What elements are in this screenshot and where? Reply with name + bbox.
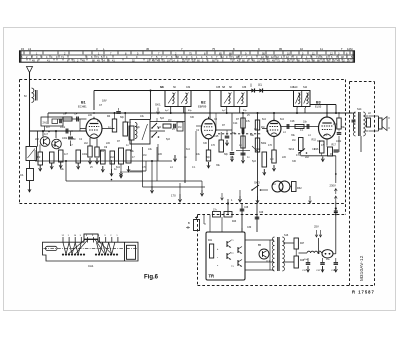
svg-text:100k: 100k <box>60 126 66 129</box>
svg-text:100k: 100k <box>82 153 88 156</box>
svg-text:L3: L3 <box>28 47 32 51</box>
svg-text:EBF89: EBF89 <box>198 104 207 108</box>
svg-text:12M: 12M <box>347 47 353 51</box>
svg-text:ECH81: ECH81 <box>78 104 87 108</box>
svg-text:220: 220 <box>88 114 93 117</box>
svg-text:SK2: SK2 <box>289 147 295 151</box>
svg-text:330: 330 <box>292 160 297 163</box>
svg-text:1M: 1M <box>178 126 181 129</box>
svg-text:X1: X1 <box>258 83 262 87</box>
svg-text:R12: R12 <box>256 148 261 151</box>
svg-text:8n2: 8n2 <box>262 118 267 121</box>
svg-text:8n2: 8n2 <box>186 148 191 151</box>
svg-text:R2: R2 <box>37 155 41 159</box>
svg-text:8n2: 8n2 <box>116 166 121 169</box>
svg-text:11: 11 <box>320 47 323 51</box>
svg-text:4n7: 4n7 <box>64 153 69 156</box>
svg-text:SK3: SK3 <box>254 181 260 185</box>
svg-text:M310AV-12: M310AV-12 <box>359 255 364 281</box>
svg-text:C14: C14 <box>233 122 238 125</box>
svg-text:2k2: 2k2 <box>305 156 310 159</box>
svg-text:S10: S10 <box>303 87 308 89</box>
svg-text:Fig.6: Fig.6 <box>144 275 159 281</box>
svg-text:95: 95 <box>279 47 283 51</box>
svg-text:4n7: 4n7 <box>46 126 51 129</box>
svg-text:330: 330 <box>52 144 57 147</box>
svg-text:2k2: 2k2 <box>110 156 115 159</box>
svg-text:1M: 1M <box>143 154 146 157</box>
svg-text:220: 220 <box>106 142 111 145</box>
svg-text:220: 220 <box>282 156 287 159</box>
svg-text:TR: TR <box>209 274 215 279</box>
svg-text:68p: 68p <box>206 156 211 159</box>
svg-text:C31: C31 <box>160 87 165 89</box>
svg-text:C36: C36 <box>242 87 247 89</box>
svg-text:470: 470 <box>296 154 301 157</box>
svg-text:R32: R32 <box>297 187 302 190</box>
svg-text:18V: 18V <box>102 99 107 103</box>
svg-text:B: B <box>188 221 190 225</box>
svg-text:75: 75 <box>212 47 216 51</box>
svg-text:4n7: 4n7 <box>333 123 338 126</box>
svg-text:68p: 68p <box>224 153 229 156</box>
svg-text:2k2: 2k2 <box>84 142 89 145</box>
svg-text:470: 470 <box>268 144 273 147</box>
svg-text:2A1: 2A1 <box>43 121 48 125</box>
svg-text:100k: 100k <box>336 140 342 143</box>
svg-text:5p6: 5p6 <box>160 117 165 120</box>
svg-text:R41: R41 <box>208 240 213 242</box>
svg-text:T: T <box>341 47 343 51</box>
svg-text:CA1: CA1 <box>88 264 94 268</box>
svg-text:45: 45 <box>146 47 150 51</box>
svg-text:C1: C1 <box>20 173 24 177</box>
svg-text:330: 330 <box>190 116 195 119</box>
svg-text:220: 220 <box>158 153 163 156</box>
svg-text:100k: 100k <box>62 137 68 140</box>
svg-text:C35: C35 <box>216 87 221 89</box>
svg-text:2k2: 2k2 <box>35 138 40 141</box>
svg-text:230V: 230V <box>330 184 336 188</box>
svg-text:C4: C4 <box>74 112 78 116</box>
svg-text:SK1: SK1 <box>155 103 161 107</box>
svg-text:R47: R47 <box>300 243 305 245</box>
svg-text:500k: 500k <box>261 142 267 145</box>
svg-text:R43: R43 <box>232 221 237 223</box>
svg-text:5p6: 5p6 <box>252 160 257 163</box>
svg-text:B1: B1 <box>81 101 86 105</box>
svg-text:S14: S14 <box>357 108 362 111</box>
svg-text:4n7: 4n7 <box>44 133 49 136</box>
svg-text:15: 15 <box>21 47 25 51</box>
svg-text:1M: 1M <box>270 158 273 161</box>
svg-text:170: 170 <box>171 194 176 198</box>
svg-text:B3: B3 <box>316 101 321 105</box>
svg-text:R15: R15 <box>312 139 317 142</box>
svg-text:470: 470 <box>142 166 147 169</box>
svg-text:R 17587: R 17587 <box>352 290 375 295</box>
svg-text:25V: 25V <box>314 225 319 229</box>
svg-text:68p: 68p <box>136 126 141 129</box>
svg-text:R17: R17 <box>332 144 337 147</box>
svg-text:5p6: 5p6 <box>166 138 171 141</box>
svg-text:68p: 68p <box>120 116 125 119</box>
svg-text:C28: C28 <box>244 207 249 209</box>
svg-text:C15: C15 <box>214 135 219 138</box>
svg-text:C32: C32 <box>186 87 191 89</box>
svg-text:10n: 10n <box>303 121 308 124</box>
svg-text:5p6: 5p6 <box>157 126 162 129</box>
svg-text:8n2: 8n2 <box>280 118 285 121</box>
svg-text:C30: C30 <box>247 227 252 229</box>
svg-text:C29: C29 <box>259 212 264 214</box>
svg-text:U.X: U.X <box>279 189 284 192</box>
svg-text:470: 470 <box>211 144 216 147</box>
svg-text:C41: C41 <box>290 87 295 89</box>
svg-text:C18: C18 <box>290 120 295 123</box>
svg-text:S16: S16 <box>284 234 289 237</box>
svg-text:B2: B2 <box>201 101 206 105</box>
svg-text:330: 330 <box>203 142 208 145</box>
svg-text:1M: 1M <box>168 119 171 122</box>
svg-text:10: 10 <box>300 47 304 51</box>
svg-text:1M: 1M <box>292 139 295 142</box>
